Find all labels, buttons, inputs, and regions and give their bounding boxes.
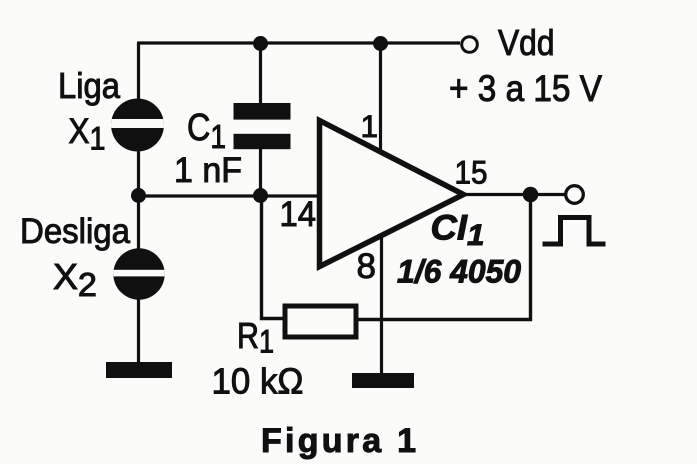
wire output — [462, 193, 566, 196]
svg-text:10 kΩ: 10 kΩ — [212, 360, 304, 401]
junction node output feedback — [523, 187, 539, 203]
wire node to R1 left — [262, 196, 285, 319]
svg-text:1/6 4050: 1/6 4050 — [397, 254, 521, 290]
ground X2 — [106, 362, 172, 378]
junction node top pin1 — [373, 36, 388, 51]
wire R1 right feedback — [357, 194, 531, 320]
svg-text:Figura 1: Figura 1 — [261, 422, 416, 460]
svg-text:14: 14 — [280, 195, 317, 234]
junction node X1 X2 — [131, 188, 146, 203]
svg-text:Liga: Liga — [58, 65, 121, 106]
output square wave symbol — [543, 218, 606, 245]
svg-text:1: 1 — [361, 108, 379, 144]
junction node C1 R1 — [253, 188, 268, 203]
svg-text:15: 15 — [455, 155, 488, 191]
wire C1 top lead — [259, 43, 262, 106]
touch sensor X2 — [106, 248, 174, 299]
resistor R1 — [285, 306, 356, 337]
output terminal circle — [566, 186, 584, 204]
op-amp buffer CI1 triangle — [320, 121, 464, 267]
ground pin 8 — [352, 373, 414, 388]
svg-text:Desliga: Desliga — [20, 212, 130, 251]
wire left vertical X1 branch — [137, 43, 140, 197]
wire X2 bottom lead — [137, 196, 140, 366]
svg-text:1 nF: 1 nF — [174, 151, 242, 190]
Vdd terminal circle — [462, 37, 478, 53]
svg-text:8: 8 — [357, 247, 376, 286]
wire pin 1 supply lead — [379, 43, 382, 160]
svg-text:Vdd: Vdd — [498, 22, 555, 63]
wire C1 bottom lead — [259, 148, 262, 196]
touch sensor X1 — [104, 99, 172, 152]
svg-text:+ 3 a 15 V: + 3 a 15 V — [449, 68, 602, 109]
wire top rail — [137, 41, 460, 44]
capacitor C1 — [234, 103, 291, 149]
wire pin 8 ground lead — [380, 225, 383, 378]
junction node top C1 — [253, 36, 268, 51]
wire middle input net — [138, 194, 322, 197]
